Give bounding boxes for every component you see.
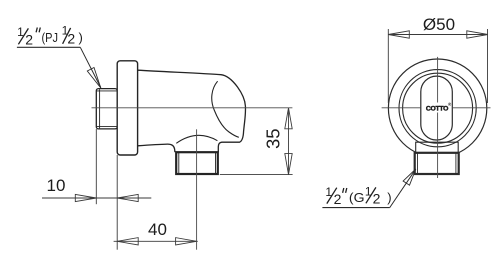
- spout inner curve: [212, 81, 239, 137]
- body outline top/right: [138, 70, 246, 152]
- label 1/2"(G1/2): [322, 169, 415, 208]
- arrow right (points right): [176, 238, 197, 245]
- thread (inlet PJ1/2): [96, 89, 117, 129]
- underline: [17, 46, 80, 48]
- svg-text:): ): [387, 190, 391, 205]
- dimension: O50: [388, 29, 488, 103]
- label 1/2"(PJ1/2): [17, 24, 101, 89]
- outlet vertical centerline: [196, 129, 198, 249]
- svg-text:2: 2: [67, 31, 75, 47]
- leader arrowhead: [87, 68, 101, 89]
- dome arc over outlet: [176, 135, 217, 143]
- ext line outlet bottom: [220, 174, 293, 176]
- ext line flange face (shared 10/40): [116, 155, 118, 250]
- dimension: 35: [220, 108, 293, 175]
- svg-text:Ø50: Ø50: [423, 15, 455, 34]
- leader line: [80, 47, 101, 87]
- inch marks: [343, 188, 347, 193]
- body outline bottom: [138, 144, 175, 152]
- svg-text:(PJ: (PJ: [42, 30, 59, 45]
- thread root lines: [97, 89, 117, 128]
- outer circle: [388, 59, 486, 157]
- horizontal centerline: [92, 107, 293, 109]
- arrow left (points left): [117, 238, 138, 245]
- svg-text:COTTO: COTTO: [426, 106, 448, 113]
- arrow bottom (points down): [285, 154, 292, 175]
- flange: [117, 61, 137, 155]
- dim line 35: [288, 108, 290, 175]
- dim line 10: [42, 197, 151, 199]
- inch marks: [36, 28, 40, 33]
- circle 3: [403, 73, 473, 143]
- svg-text:35: 35: [262, 128, 283, 149]
- underline: [322, 207, 389, 209]
- svg-text:(G: (G: [349, 190, 365, 205]
- svg-text:2: 2: [373, 190, 381, 206]
- dimension: 40: [114, 238, 198, 245]
- leader arrowhead: [403, 169, 416, 185]
- svg-text:2: 2: [25, 32, 33, 48]
- collar below circle: [416, 142, 459, 153]
- side view: wall shower union, left: [96, 61, 245, 174]
- arrow top (points up): [285, 108, 292, 129]
- centerlines side view: [92, 108, 293, 250]
- outlet nut (side view, thick): [176, 152, 218, 174]
- svg-text:10: 10: [47, 176, 66, 195]
- svg-text:40: 40: [148, 220, 167, 239]
- leader line: [390, 170, 416, 208]
- circle 2: [399, 70, 476, 147]
- arrow left (points right): [75, 194, 96, 201]
- svg-text:2: 2: [334, 191, 342, 207]
- centerlines right view: [382, 57, 491, 178]
- nut (right view, thick): [415, 153, 459, 174]
- svg-text:): ): [79, 30, 83, 45]
- dimension: 10: [42, 129, 151, 250]
- capsule: [421, 76, 453, 140]
- ext line outlet centerline handled by centerline: [114, 240, 198, 242]
- ext line thread-left: [95, 129, 97, 204]
- arrow right (points left): [117, 194, 138, 201]
